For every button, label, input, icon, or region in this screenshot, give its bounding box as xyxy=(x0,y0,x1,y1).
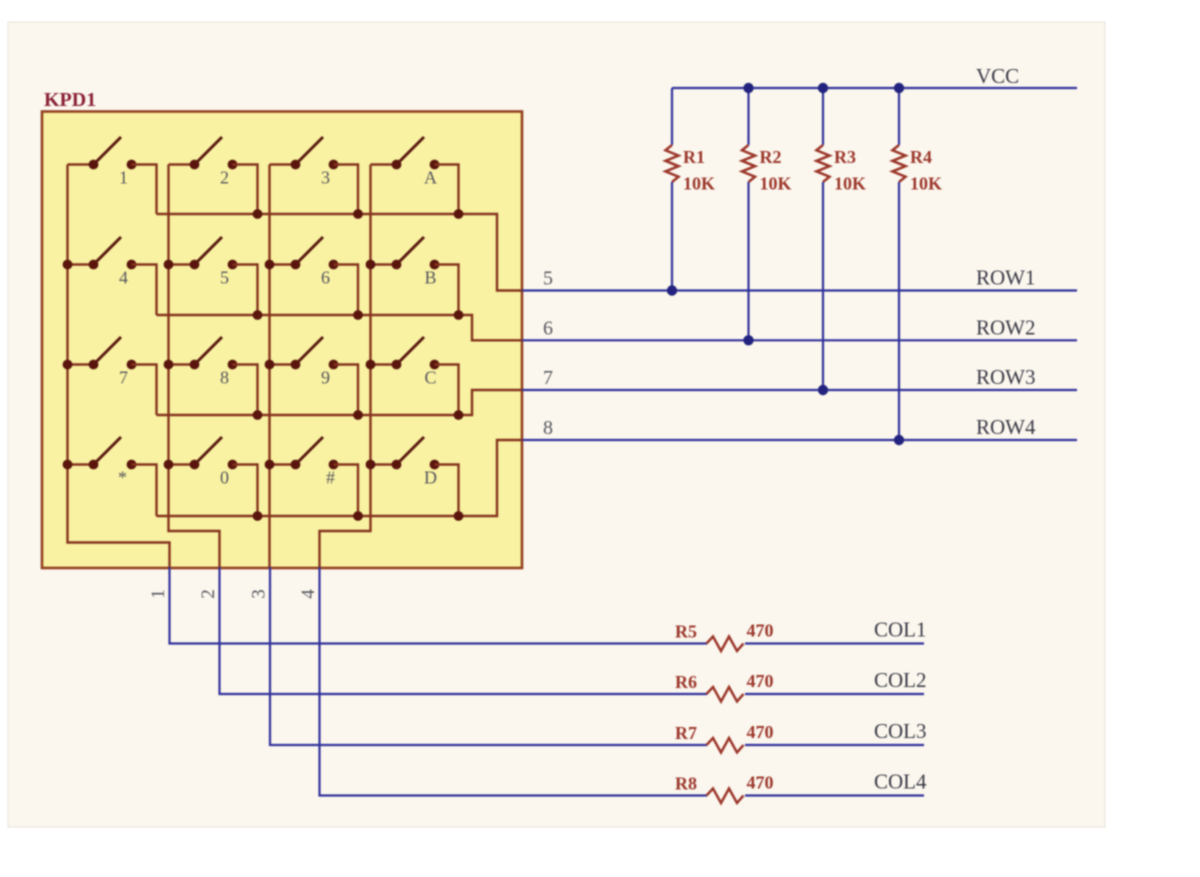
junction: R2 on VCC rail xyxy=(743,83,753,93)
switch key 8: left lead wire xyxy=(169,363,195,365)
junction: column 4 at key C xyxy=(366,360,376,370)
switch key D: lever arm xyxy=(399,437,425,463)
svg-text:5: 5 xyxy=(543,268,553,290)
svg-text:3: 3 xyxy=(249,589,270,599)
svg-text:4: 4 xyxy=(119,268,128,288)
column pin 3 wire below keypad xyxy=(270,567,707,745)
junction: key 6 on row 2 bus xyxy=(353,310,363,320)
resistor R4 top lead from VCC xyxy=(898,88,900,145)
wire net COL4 after resistor R8 xyxy=(745,794,924,796)
switch key 7: left lead wire xyxy=(68,363,94,365)
switch key 2: right lead wire to row bus xyxy=(233,165,258,215)
junction: R1 on ROW1 xyxy=(667,285,677,295)
switch key 7: lever arm xyxy=(96,337,122,363)
column 1 vertical wire (inside keypad) xyxy=(68,165,170,568)
row 4 bus wire (inside keypad) to pin 8 xyxy=(157,440,523,516)
junction: key 0 on row 4 bus xyxy=(253,511,263,521)
switch key 0: right terminal dot xyxy=(228,460,238,470)
svg-text:0: 0 xyxy=(220,468,229,488)
svg-text:8: 8 xyxy=(220,368,229,388)
column 4 vertical wire (inside keypad) xyxy=(320,165,371,568)
switch key B: left terminal dot xyxy=(392,260,402,270)
switch key C: right lead wire to row bus xyxy=(435,365,459,416)
svg-text:KPD1: KPD1 xyxy=(44,89,96,111)
switch key 1: lever arm xyxy=(96,137,122,163)
junction: key 8 on row 3 bus xyxy=(253,410,263,420)
wire net ROW1 xyxy=(522,289,1077,291)
svg-text:R6: R6 xyxy=(675,672,697,692)
svg-text:7: 7 xyxy=(543,367,553,389)
junction: key C on row 3 bus xyxy=(454,410,464,420)
svg-text:ROW3: ROW3 xyxy=(976,365,1036,389)
junction: column 1 at key 7 xyxy=(63,360,73,370)
resistor R3 body (zigzag) xyxy=(817,145,830,182)
svg-text:R8: R8 xyxy=(675,774,697,794)
junction: column 2 at key 0 xyxy=(164,460,174,470)
switch key B: right lead wire to row bus xyxy=(435,265,459,316)
junction: key 3 on row 1 bus xyxy=(353,209,363,219)
switch key *: left terminal dot xyxy=(89,460,99,470)
switch key 9: left lead wire xyxy=(270,363,296,365)
column 2 vertical wire (inside keypad) xyxy=(169,165,220,568)
switch key 4: right terminal dot xyxy=(127,260,137,270)
switch key 7: right lead wire to row bus xyxy=(132,365,157,416)
keypad KPD1 body (yellow box) xyxy=(42,112,522,569)
svg-text:C: C xyxy=(424,368,436,388)
svg-text:ROW2: ROW2 xyxy=(976,315,1036,339)
resistor R2 bottom lead to ROW2 xyxy=(747,182,749,340)
svg-text:470: 470 xyxy=(747,671,774,691)
wire net ROW3 xyxy=(522,389,1077,391)
switch key 0: right lead wire to row bus xyxy=(233,465,258,517)
switch key 7: left terminal dot xyxy=(89,360,99,370)
junction: R2 on ROW2 xyxy=(743,335,753,345)
junction: key # on row 4 bus xyxy=(353,511,363,521)
junction: column 2 at key 8 xyxy=(164,360,174,370)
row 3 bus wire (inside keypad) to pin 7 xyxy=(157,390,523,415)
junction: column 3 at key 9 xyxy=(265,360,275,370)
svg-text:COL3: COL3 xyxy=(874,719,927,743)
column pin 2 wire below keypad xyxy=(220,567,708,694)
svg-text:*: * xyxy=(118,468,127,488)
switch key *: lever arm xyxy=(96,437,122,463)
junction: column 3 at key # xyxy=(265,460,275,470)
switch key 4: right lead wire to row bus xyxy=(132,265,157,316)
junction: key 2 on row 1 bus xyxy=(253,209,263,219)
switch key 8: right terminal dot xyxy=(228,360,238,370)
switch key 4: left lead wire xyxy=(68,263,94,265)
resistor R7 body (zigzag) xyxy=(707,738,744,753)
switch key 8: lever arm xyxy=(197,337,223,363)
switch key 4: left terminal dot xyxy=(89,260,99,270)
svg-text:8: 8 xyxy=(543,417,553,439)
switch key 1: left terminal dot xyxy=(89,160,99,170)
svg-text:A: A xyxy=(424,168,437,188)
switch key 1: right terminal dot xyxy=(127,160,137,170)
svg-text:R5: R5 xyxy=(675,622,697,642)
svg-text:470: 470 xyxy=(747,621,774,641)
junction: column 1 at key 4 xyxy=(63,260,73,270)
svg-text:470: 470 xyxy=(747,722,774,742)
switch key 5: left terminal dot xyxy=(190,260,200,270)
switch key A: right terminal dot xyxy=(430,160,440,170)
switch key 6: lever arm xyxy=(298,237,324,263)
svg-text:10K: 10K xyxy=(683,174,715,194)
switch key C: left lead wire xyxy=(371,363,397,365)
junction: key B on row 2 bus xyxy=(454,310,464,320)
switch key B: lever arm xyxy=(399,237,425,263)
svg-text:2: 2 xyxy=(220,168,229,188)
switch key #: lever arm xyxy=(298,437,324,463)
svg-text:1: 1 xyxy=(119,168,128,188)
svg-text:2: 2 xyxy=(198,589,219,599)
column pin 1 wire below keypad xyxy=(170,567,708,644)
junction: R3 on ROW3 xyxy=(818,385,828,395)
switch key 3: right terminal dot xyxy=(329,160,339,170)
resistor R3 bottom lead to ROW3 xyxy=(822,182,824,390)
switch key 5: left lead wire xyxy=(169,263,195,265)
switch key #: right terminal dot xyxy=(329,460,339,470)
switch key A: left lead wire xyxy=(371,163,397,165)
svg-text:R1: R1 xyxy=(683,147,705,167)
switch key D: right lead wire to row bus xyxy=(435,465,459,517)
row 2 bus wire (inside keypad) to pin 6 xyxy=(157,315,523,340)
resistor R1 body (zigzag) xyxy=(666,145,679,182)
svg-text:COL4: COL4 xyxy=(874,770,927,794)
switch key #: right lead wire to row bus xyxy=(334,465,359,517)
switch key 4: lever arm xyxy=(96,237,122,263)
wire net ROW4 xyxy=(522,439,1077,441)
switch key 8: left terminal dot xyxy=(190,360,200,370)
junction: key A on row 1 bus xyxy=(454,209,464,219)
svg-text:ROW4: ROW4 xyxy=(976,415,1036,439)
resistor R4 bottom lead to ROW4 xyxy=(898,182,900,440)
switch key 5: right terminal dot xyxy=(228,260,238,270)
junction: R4 on VCC rail xyxy=(894,83,904,93)
switch key D: left terminal dot xyxy=(392,460,402,470)
switch key *: right terminal dot xyxy=(127,460,137,470)
switch key 2: lever arm xyxy=(197,137,223,163)
svg-text:R2: R2 xyxy=(760,147,782,167)
svg-text:6: 6 xyxy=(543,317,553,339)
junction: R4 on ROW4 xyxy=(894,435,904,445)
switch key 9: right terminal dot xyxy=(329,360,339,370)
wire net COL2 after resistor R6 xyxy=(745,693,924,695)
svg-text:COL1: COL1 xyxy=(874,618,927,642)
switch key 6: left terminal dot xyxy=(291,260,301,270)
switch key C: right terminal dot xyxy=(430,360,440,370)
svg-text:7: 7 xyxy=(119,368,128,388)
switch key 0: left terminal dot xyxy=(190,460,200,470)
switch key C: left terminal dot xyxy=(392,360,402,370)
resistor R8 body (zigzag) xyxy=(707,789,744,804)
resistor R1 bottom lead to ROW1 xyxy=(671,182,673,291)
switch key *: left lead wire xyxy=(68,463,94,465)
switch key 3: left lead wire xyxy=(270,163,296,165)
switch key C: lever arm xyxy=(399,337,425,363)
resistor R5 body (zigzag) xyxy=(707,637,744,652)
svg-text:D: D xyxy=(424,468,437,488)
switch key 9: left terminal dot xyxy=(291,360,301,370)
svg-text:10K: 10K xyxy=(760,174,792,194)
junction: column 4 at key B xyxy=(366,260,376,270)
svg-text:4: 4 xyxy=(298,589,319,599)
resistor R2 top lead from VCC xyxy=(747,88,749,145)
switch key 9: right lead wire to row bus xyxy=(334,365,359,416)
switch key 3: right lead wire to row bus xyxy=(334,165,359,215)
svg-text:5: 5 xyxy=(220,268,229,288)
junction: key 9 on row 3 bus xyxy=(353,410,363,420)
resistor R6 body (zigzag) xyxy=(707,687,744,702)
svg-text:R3: R3 xyxy=(834,147,856,167)
svg-text:B: B xyxy=(424,268,436,288)
switch key 6: right lead wire to row bus xyxy=(334,265,359,316)
svg-text:9: 9 xyxy=(321,368,330,388)
junction: column 2 at key 5 xyxy=(164,260,174,270)
switch key 2: left lead wire xyxy=(169,163,195,165)
svg-text:3: 3 xyxy=(321,168,330,188)
junction: column 3 at key 6 xyxy=(265,260,275,270)
resistor R4 body (zigzag) xyxy=(893,145,906,182)
svg-text:#: # xyxy=(326,468,335,488)
wire net VCC xyxy=(672,87,1077,89)
switch key 1: right lead wire to row bus xyxy=(132,165,157,215)
switch key 0: left lead wire xyxy=(169,463,195,465)
svg-text:COL2: COL2 xyxy=(874,668,927,692)
switch key A: left terminal dot xyxy=(392,160,402,170)
switch key 5: lever arm xyxy=(197,237,223,263)
switch key #: left terminal dot xyxy=(291,460,301,470)
junction: key 5 on row 2 bus xyxy=(253,310,263,320)
switch key 3: lever arm xyxy=(298,137,324,163)
switch key D: left lead wire xyxy=(371,463,397,465)
switch key #: left lead wire xyxy=(270,463,296,465)
switch key D: right terminal dot xyxy=(430,460,440,470)
switch key 2: right terminal dot xyxy=(228,160,238,170)
resistor R3 top lead from VCC xyxy=(822,88,824,145)
switch key A: lever arm xyxy=(399,137,425,163)
junction: column 4 at key D xyxy=(366,460,376,470)
svg-text:1: 1 xyxy=(148,589,169,599)
switch key 2: left terminal dot xyxy=(190,160,200,170)
junction: R3 on VCC rail xyxy=(818,83,828,93)
junction: column 1 at key * xyxy=(63,460,73,470)
resistor R2 body (zigzag) xyxy=(742,145,755,182)
switch key 5: right lead wire to row bus xyxy=(233,265,258,316)
svg-text:10K: 10K xyxy=(834,174,866,194)
switch key *: right lead wire to row bus xyxy=(132,465,157,517)
switch key 3: left terminal dot xyxy=(291,160,301,170)
row 1 bus wire (inside keypad) to pin 5 xyxy=(157,214,523,291)
svg-text:VCC: VCC xyxy=(976,64,1019,88)
switch key 7: right terminal dot xyxy=(127,360,137,370)
switch key B: left lead wire xyxy=(371,263,397,265)
svg-text:470: 470 xyxy=(747,773,774,793)
switch key 6: left lead wire xyxy=(270,263,296,265)
resistor R1 top lead from VCC xyxy=(671,88,673,145)
column 3 vertical wire (inside keypad) xyxy=(268,165,270,568)
switch key 9: lever arm xyxy=(298,337,324,363)
junction: key D on row 4 bus xyxy=(454,511,464,521)
svg-text:ROW1: ROW1 xyxy=(976,266,1036,290)
svg-text:R7: R7 xyxy=(675,723,697,743)
svg-text:R4: R4 xyxy=(910,147,932,167)
svg-text:10K: 10K xyxy=(910,174,942,194)
switch key 1: left lead wire xyxy=(68,163,94,165)
wire net ROW2 xyxy=(522,339,1077,341)
wire net COL1 after resistor R5 xyxy=(745,642,924,644)
switch key 8: right lead wire to row bus xyxy=(233,365,258,416)
svg-text:6: 6 xyxy=(321,268,330,288)
switch key 6: right terminal dot xyxy=(329,260,339,270)
column pin 4 wire below keypad xyxy=(320,567,708,796)
switch key A: right lead wire to row bus xyxy=(435,165,459,215)
switch key 0: lever arm xyxy=(197,437,223,463)
wire net COL3 after resistor R7 xyxy=(745,744,924,746)
switch key B: right terminal dot xyxy=(430,260,440,270)
